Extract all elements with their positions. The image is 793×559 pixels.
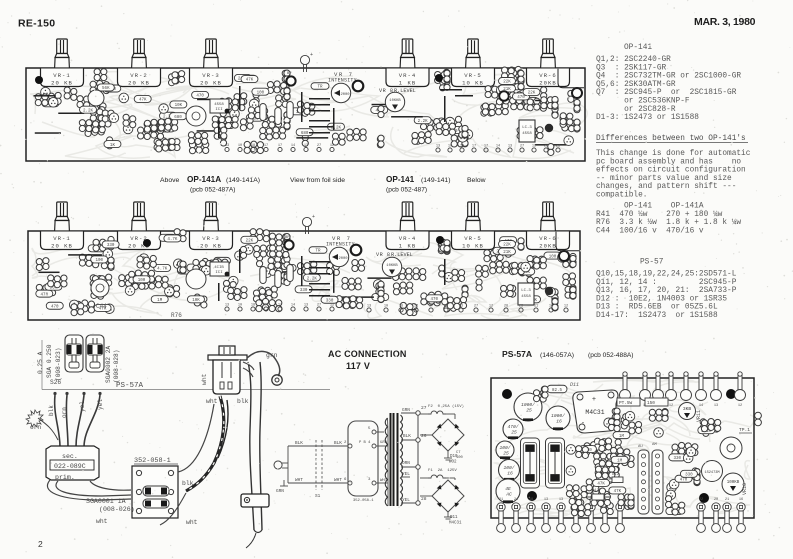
svg-text:AC CONNECTION: AC CONNECTION — [328, 349, 407, 359]
svg-text:10K: 10K — [192, 299, 200, 303]
svg-text:VR-6: VR-6 — [539, 235, 556, 242]
svg-text:0.25 A: 0.25 A — [37, 351, 44, 374]
svg-text:Q7 : 2SC945-P or 2SC1815-GR: Q7 : 2SC945-P or 2SC1815-GR — [596, 89, 737, 97]
svg-text:BLK: BLK — [334, 441, 342, 446]
svg-text:16: 16 — [556, 419, 562, 425]
svg-text:OP-141: OP-141 — [624, 44, 652, 52]
svg-text:12: 12 — [738, 404, 742, 408]
svg-text:470/: 470/ — [507, 424, 518, 430]
svg-text:150: 150 — [647, 401, 655, 406]
svg-text:12: 12 — [532, 145, 536, 149]
svg-text:(pcb 052-488A): (pcb 052-488A) — [588, 352, 633, 359]
svg-text:R76: R76 — [171, 312, 182, 319]
svg-text:ICI: ICI — [215, 271, 222, 275]
svg-text:D11: D11 — [570, 382, 579, 388]
svg-text:21K: 21K — [503, 251, 511, 255]
svg-text:4E: 4E — [505, 486, 511, 492]
svg-text:VR-2: VR-2 — [130, 72, 147, 79]
svg-text:VR-4: VR-4 — [399, 235, 416, 242]
svg-text:prim.: prim. — [55, 474, 75, 481]
svg-text:4CIB: 4CIB — [214, 266, 224, 270]
svg-text:10 KB: 10 KB — [462, 243, 484, 250]
svg-text:or 2SC536KNP-F: or 2SC536KNP-F — [596, 98, 690, 106]
svg-text:PS-57A: PS-57A — [116, 382, 144, 390]
svg-text:View from foil side: View from foil side — [290, 177, 345, 184]
svg-text:S1: S1 — [315, 494, 321, 499]
svg-text:VR-4: VR-4 — [399, 72, 416, 79]
svg-text:yel: yel — [97, 399, 104, 410]
svg-text:27: 27 — [317, 304, 321, 308]
svg-text:22: 22 — [699, 498, 703, 502]
svg-text:470: 470 — [680, 478, 688, 482]
svg-text:2000: 2000 — [338, 257, 348, 261]
svg-text:470: 470 — [51, 305, 59, 309]
svg-text:10: 10 — [448, 145, 452, 149]
svg-text:18: 18 — [529, 498, 533, 502]
svg-text:10K: 10K — [175, 104, 183, 108]
svg-text:(pcb 052-487): (pcb 052-487) — [386, 187, 427, 194]
svg-text:20 KB: 20 KB — [51, 80, 73, 87]
svg-text:GRN: GRN — [402, 408, 410, 413]
svg-text:(008-023): (008-023) — [55, 348, 62, 381]
svg-text:1M: 1M — [157, 299, 163, 303]
svg-text:4558: 4558 — [214, 103, 224, 107]
svg-text:VR-3: VR-3 — [202, 72, 219, 79]
svg-text:26: 26 — [421, 433, 427, 439]
svg-text:WO2: WO2 — [449, 461, 457, 465]
svg-text:BLK: BLK — [403, 434, 411, 439]
svg-text:SGA0002 2A: SGA0002 2A — [105, 346, 112, 383]
svg-text:(008-026): (008-026) — [99, 506, 135, 513]
svg-text:M4C31: M4C31 — [585, 409, 604, 416]
svg-text:330: 330 — [107, 244, 115, 248]
svg-text:56K: 56K — [102, 87, 110, 91]
svg-text:AC: AC — [505, 492, 512, 498]
svg-text:C7: C7 — [456, 451, 461, 455]
svg-text:1K: 1K — [110, 144, 116, 148]
svg-text:14: 14 — [699, 404, 703, 408]
svg-text:12: 12 — [330, 304, 334, 308]
svg-text:2.2K: 2.2K — [83, 109, 94, 113]
svg-text:(146-057A): (146-057A) — [540, 352, 574, 359]
svg-text:13: 13 — [559, 498, 563, 502]
svg-text:Q5,6: 2SK30ATM-GR: Q5,6: 2SK30ATM-GR — [596, 81, 676, 89]
svg-text:13: 13 — [225, 304, 229, 308]
svg-text:3KB: 3KB — [683, 406, 692, 412]
svg-text:4558: 4558 — [521, 295, 531, 299]
svg-text:10KKB: 10KKB — [386, 264, 398, 268]
svg-text:+: + — [592, 396, 596, 404]
svg-text:wht: wht — [201, 373, 208, 385]
svg-text:12: 12 — [669, 404, 673, 408]
svg-text:14: 14 — [291, 144, 295, 148]
svg-text:BLK: BLK — [295, 441, 303, 446]
svg-text:28: 28 — [504, 305, 508, 309]
svg-text:100KB: 100KB — [727, 481, 740, 485]
svg-text:330: 330 — [674, 457, 682, 461]
svg-text:18: 18 — [399, 305, 403, 309]
svg-text:LC-3: LC-3 — [521, 289, 531, 293]
svg-text:Q3 : 2SK117-GR: Q3 : 2SK117-GR — [596, 64, 667, 72]
svg-text:14: 14 — [444, 305, 448, 309]
svg-text:100/: 100/ — [503, 465, 514, 471]
svg-text:20KB: 20KB — [539, 80, 556, 87]
svg-text:VR-3: VR-3 — [202, 235, 219, 242]
svg-text:WHT: WHT — [334, 478, 342, 483]
svg-text:R41 470 ½w 270 + 180 ¼w: R41 470 ½w 270 + 180 ¼w — [596, 210, 723, 219]
svg-text:17: 17 — [264, 144, 268, 148]
svg-text:Below: Below — [467, 177, 486, 184]
svg-text:or 2SC828-R: or 2SC828-R — [596, 106, 676, 114]
svg-text:1 KB: 1 KB — [399, 243, 416, 250]
svg-text:P B: P B — [359, 441, 367, 445]
svg-text:ICI: ICI — [215, 108, 222, 112]
svg-text:20 KB: 20 KB — [51, 243, 73, 250]
svg-text:-: - — [581, 420, 585, 428]
svg-text:21: 21 — [725, 498, 729, 502]
svg-text:INTENSITY: INTENSITY — [326, 242, 355, 248]
svg-text:blk: blk — [237, 398, 249, 405]
svg-text:12: 12 — [330, 144, 334, 148]
svg-text:blk: blk — [48, 405, 55, 416]
svg-text:(pcb 052-487A): (pcb 052-487A) — [190, 187, 235, 194]
svg-text:27: 27 — [317, 144, 321, 148]
svg-text:13: 13 — [508, 145, 512, 149]
svg-text:100: 100 — [257, 91, 265, 95]
svg-text:13: 13 — [436, 145, 440, 149]
svg-text:13: 13 — [367, 305, 371, 309]
svg-text:12: 12 — [564, 305, 568, 309]
svg-text:Q11, 12, 14 : 2SC945-P: Q11, 12, 14 : 2SC945-P — [596, 279, 737, 287]
svg-text:680: 680 — [174, 116, 182, 120]
svg-text:D13: D13 — [592, 489, 600, 493]
svg-text:22K: 22K — [503, 244, 511, 248]
svg-text:18: 18 — [251, 304, 255, 308]
svg-text:Q13, 16, 17, 20, 21: 2SA733-P: Q13, 16, 17, 20, 21: 2SA733-P — [596, 287, 737, 295]
svg-text:470: 470 — [431, 298, 439, 302]
svg-text:F1 2A 125V: F1 2A 125V — [428, 469, 457, 473]
svg-text:330: 330 — [300, 289, 308, 293]
svg-text:20 KB: 20 KB — [128, 80, 150, 87]
svg-text:28: 28 — [544, 145, 548, 149]
svg-text:BP: BP — [285, 236, 290, 240]
svg-text:100/: 100/ — [499, 445, 510, 451]
svg-text:PS-57: PS-57 — [640, 259, 664, 267]
svg-text:LC-3: LC-3 — [522, 126, 532, 130]
svg-text:1S2473M: 1S2473M — [704, 471, 719, 475]
svg-text:1M: 1M — [619, 435, 625, 439]
svg-text:(149-141): (149-141) — [421, 177, 450, 184]
svg-text:YEL: YEL — [402, 472, 410, 477]
svg-text:Q10,15,18,19,22,24,25:2SD571-L: Q10,15,18,19,22,24,25:2SD571-L — [596, 271, 737, 279]
svg-text:13: 13 — [225, 144, 229, 148]
svg-text:2: 2 — [38, 539, 43, 549]
svg-text:1000/: 1000/ — [521, 402, 535, 408]
svg-text:VR-1: VR-1 — [53, 72, 70, 79]
svg-text:SGA0001 1A: SGA0001 1A — [86, 498, 126, 505]
svg-text:Q4 : 2SC732TM-GR or 2SC1000-G: Q4 : 2SC732TM-GR or 2SC1000-GR — [596, 73, 741, 81]
svg-text:20 KB: 20 KB — [200, 80, 222, 87]
svg-text:sec.: sec. — [62, 453, 78, 460]
svg-text:14: 14 — [291, 304, 295, 308]
svg-text:PT.5W: PT.5W — [619, 401, 633, 406]
svg-text:2000: 2000 — [340, 93, 350, 97]
svg-text:100: 100 — [549, 255, 557, 259]
svg-text:D14-17: 1S2473 or 1S1588: D14-17: 1S2473 or 1S1588 — [596, 312, 718, 320]
svg-text:1M: 1M — [617, 460, 623, 464]
svg-text:13: 13 — [544, 498, 548, 502]
svg-text:-- minor parts value and size: -- minor parts value and size — [596, 175, 732, 183]
svg-text:VR 8: VR 8 — [376, 252, 390, 258]
svg-text:16: 16 — [739, 498, 743, 502]
svg-text:grn: grn — [266, 352, 278, 359]
svg-text:VR-5: VR-5 — [464, 72, 481, 79]
svg-text:D13 : RD5.6EB or 05Z5.6L: D13 : RD5.6EB or 05Z5.6L — [596, 304, 718, 312]
svg-text:117 V: 117 V — [346, 361, 370, 371]
svg-text:BP: BP — [287, 72, 292, 76]
svg-text:SGA 0.250: SGA 0.250 — [46, 344, 53, 378]
svg-text:VR-5: VR-5 — [464, 235, 481, 242]
svg-text:10: 10 — [549, 305, 553, 309]
svg-text:10 KB: 10 KB — [462, 80, 484, 87]
svg-text:pc board assembly and has n: pc board assembly and has no — [596, 158, 741, 166]
svg-text:13: 13 — [304, 144, 308, 148]
svg-text:27: 27 — [520, 145, 524, 149]
svg-text:20KB: 20KB — [539, 243, 556, 250]
svg-text:AM: AM — [652, 443, 657, 447]
svg-text:TR: TR — [315, 249, 321, 253]
svg-text:25: 25 — [511, 430, 517, 436]
svg-text:18: 18 — [251, 144, 255, 148]
svg-text:17: 17 — [484, 145, 488, 149]
svg-text:R76 3.3 k ½w 1.8 k + 1.8 k ¼: R76 3.3 k ½w 1.8 k + 1.8 k ¼w — [596, 218, 741, 227]
svg-text:4558: 4558 — [522, 132, 532, 136]
svg-text:22K: 22K — [503, 81, 511, 85]
svg-text:17: 17 — [429, 305, 433, 309]
svg-text:WHT: WHT — [295, 478, 303, 483]
svg-text:OP-141: OP-141 — [386, 175, 415, 184]
svg-text:17: 17 — [278, 144, 282, 148]
svg-text:11: 11 — [534, 305, 538, 309]
svg-text:17: 17 — [472, 145, 476, 149]
svg-text:OP-141A: OP-141A — [187, 175, 221, 184]
svg-text:Differences between two OP-141: Differences between two OP-141's — [596, 135, 746, 143]
svg-text:470: 470 — [41, 293, 49, 297]
svg-text:VR-1: VR-1 — [53, 235, 70, 242]
svg-text:Above: Above — [160, 177, 179, 184]
svg-text:wht: wht — [206, 398, 218, 405]
svg-text:10: 10 — [384, 305, 388, 309]
svg-text:28: 28 — [421, 496, 427, 502]
svg-text:330: 330 — [685, 474, 693, 478]
svg-text:OP-141 OP-141A: OP-141 OP-141A — [624, 203, 704, 211]
svg-text:wht: wht — [186, 519, 198, 526]
svg-text:022-089C: 022-089C — [54, 463, 86, 470]
svg-text:C44: C44 — [96, 303, 107, 310]
svg-text:47K: 47K — [246, 79, 254, 83]
svg-text:17: 17 — [414, 305, 418, 309]
svg-text:changes, and pattern shift ---: changes, and pattern shift --- — [596, 183, 736, 191]
svg-text:13: 13 — [304, 304, 308, 308]
svg-text:1 KB: 1 KB — [399, 80, 416, 87]
svg-text:1000/: 1000/ — [551, 413, 565, 419]
svg-text:352-058-1: 352-058-1 — [353, 499, 374, 503]
svg-text:+: + — [312, 214, 315, 220]
svg-text:470: 470 — [517, 96, 525, 100]
svg-text:(149-141A): (149-141A) — [226, 177, 260, 184]
svg-text:47K: 47K — [139, 99, 147, 103]
svg-text:orn: orn — [61, 407, 68, 418]
svg-text:17: 17 — [264, 304, 268, 308]
svg-text:100: 100 — [95, 259, 103, 263]
svg-text:ORN: ORN — [402, 461, 410, 466]
svg-text:18: 18 — [460, 145, 464, 149]
svg-text:MAR. 3, 1980: MAR. 3, 1980 — [694, 16, 756, 28]
svg-text:F2 0.25A (15V): F2 0.25A (15V) — [428, 404, 464, 409]
svg-text:22K: 22K — [246, 240, 254, 244]
svg-text:27: 27 — [421, 405, 427, 411]
svg-text:GRN: GRN — [276, 489, 284, 494]
svg-text:This change is done for automa: This change is done for automatic — [596, 150, 751, 158]
svg-text:compatible.: compatible. — [596, 192, 647, 200]
svg-text:10: 10 — [238, 144, 242, 148]
svg-text:24: 24 — [514, 498, 518, 502]
svg-text:INTENSITY: INTENSITY — [328, 78, 357, 84]
svg-text:VR10: VR10 — [742, 483, 748, 495]
svg-text:yel: yel — [79, 401, 86, 412]
svg-text:TP.1: TP.1 — [739, 427, 750, 433]
svg-text:23: 23 — [556, 145, 560, 149]
svg-text:2.2K: 2.2K — [307, 277, 318, 281]
svg-text:13: 13 — [459, 305, 463, 309]
svg-text:16: 16 — [507, 471, 513, 477]
svg-text:D12 : 10E2, 1N4003 or 1SR35: D12 : 10E2, 1N4003 or 1SR35 — [596, 295, 727, 303]
svg-text:D12: D12 — [612, 473, 620, 477]
svg-text:effects on circuit configurati: effects on circuit configuration — [596, 167, 746, 175]
svg-text:21: 21 — [499, 498, 503, 502]
svg-text:+: + — [310, 52, 313, 58]
svg-text:100: 100 — [138, 279, 146, 283]
svg-text:14: 14 — [496, 145, 500, 149]
svg-text:YEL: YEL — [402, 498, 410, 503]
svg-text:PS-57A: PS-57A — [502, 349, 532, 359]
svg-text:25: 25 — [503, 451, 509, 457]
svg-text:680: 680 — [301, 132, 309, 136]
svg-text:17: 17 — [278, 304, 282, 308]
svg-text:10KKB: 10KKB — [389, 99, 401, 103]
svg-text:2.2K: 2.2K — [418, 120, 429, 124]
svg-text:10: 10 — [238, 304, 242, 308]
svg-text:Q1,2: 2SC2240-GR: Q1,2: 2SC2240-GR — [596, 56, 671, 64]
svg-text:470: 470 — [196, 95, 204, 99]
svg-text:27: 27 — [474, 305, 478, 309]
svg-text:25: 25 — [526, 408, 532, 414]
svg-text:4.7K: 4.7K — [167, 238, 178, 242]
svg-text:22K: 22K — [528, 92, 536, 96]
svg-text:D1-3: 1S2473 or 1S1588: D1-3: 1S2473 or 1S1588 — [596, 114, 699, 122]
svg-text:RE-150: RE-150 — [18, 18, 55, 30]
svg-text:AU: AU — [638, 445, 643, 449]
svg-text:M4C31: M4C31 — [449, 522, 462, 526]
svg-text:100: 100 — [456, 456, 464, 460]
svg-text:23: 23 — [519, 305, 523, 309]
svg-text:C44 100/16 v 470/16 v: C44 100/16 v 470/16 v — [596, 227, 704, 235]
svg-text:20: 20 — [714, 498, 718, 502]
svg-text:13: 13 — [714, 404, 718, 408]
svg-text:4.7K: 4.7K — [157, 268, 168, 272]
svg-text:20 KB: 20 KB — [200, 243, 222, 250]
svg-text:(008-028): (008-028) — [113, 350, 120, 383]
svg-text:TR: TR — [317, 85, 323, 89]
svg-text:12: 12 — [489, 305, 493, 309]
svg-text:82.5: 82.5 — [552, 389, 563, 393]
svg-text:wht: wht — [96, 518, 108, 525]
svg-text:S26: S26 — [50, 379, 61, 386]
